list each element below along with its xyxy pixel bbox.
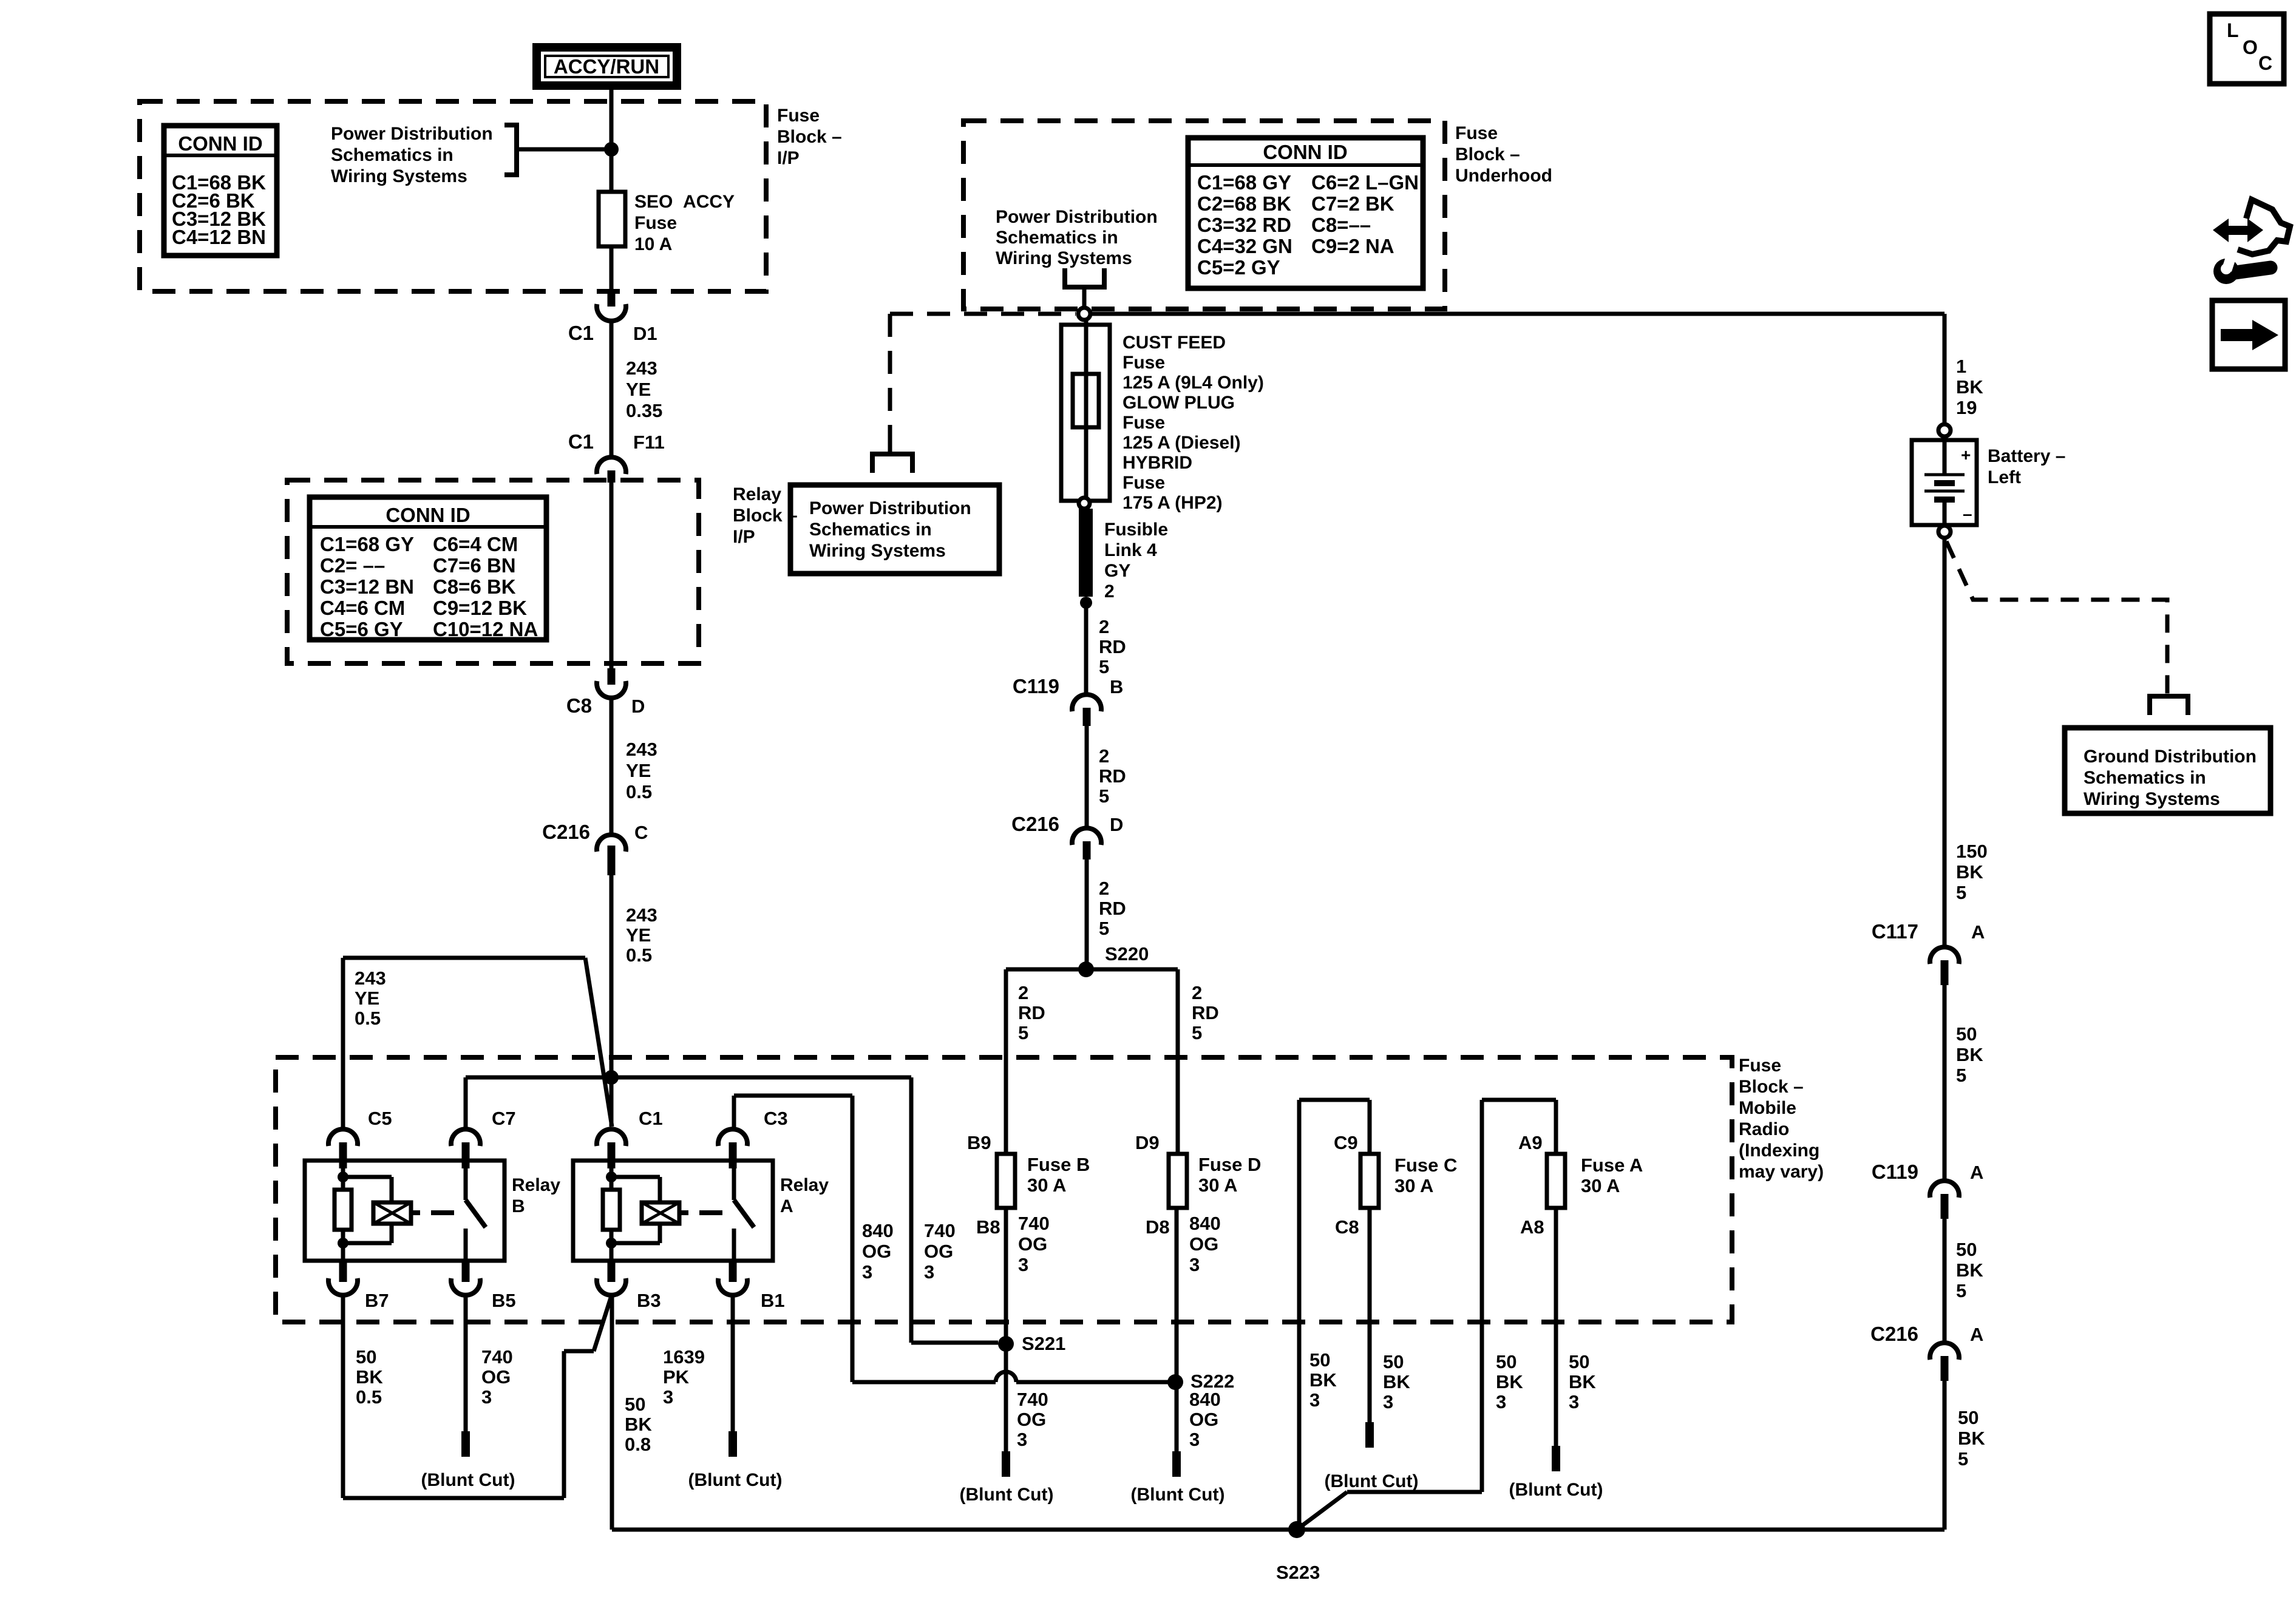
svg-text:2: 2 (1099, 616, 1109, 637)
svg-text:50: 50 (1309, 1349, 1330, 1371)
svg-text:Fuse: Fuse (1455, 123, 1498, 143)
svg-text:1: 1 (1956, 356, 1966, 377)
svg-text:C1: C1 (639, 1108, 663, 1129)
svg-text:C117: C117 (1872, 920, 1918, 943)
svg-text:C216: C216 (1011, 813, 1059, 835)
svg-text:S220: S220 (1105, 943, 1149, 964)
svg-text:C5=2 GY: C5=2 GY (1197, 256, 1280, 279)
svg-text:175 A (HP2): 175 A (HP2) (1123, 493, 1223, 513)
svg-text:C7: C7 (492, 1108, 516, 1129)
svg-text:C3=32 RD: C3=32 RD (1197, 214, 1291, 236)
svg-text:BK: BK (356, 1366, 383, 1388)
svg-text:A: A (1970, 1162, 1983, 1183)
svg-text:Power Distribution: Power Distribution (331, 124, 493, 144)
svg-text:Power Distribution: Power Distribution (996, 207, 1158, 227)
svg-text:0.5: 0.5 (356, 1386, 382, 1408)
svg-text:YE: YE (355, 988, 379, 1009)
svg-text:OG: OG (481, 1366, 511, 1388)
svg-text:Schematics in: Schematics in (809, 520, 932, 540)
svg-text:PK: PK (663, 1366, 690, 1388)
svg-text:840: 840 (1189, 1213, 1221, 1234)
svg-text:C: C (634, 822, 648, 843)
svg-text:A: A (1971, 921, 1985, 943)
svg-text:0.5: 0.5 (355, 1008, 381, 1029)
svg-text:3: 3 (1017, 1429, 1027, 1450)
svg-text:C7=6 BN: C7=6 BN (433, 554, 516, 577)
svg-text:Fuse: Fuse (777, 106, 820, 126)
svg-text:(Blunt Cut): (Blunt Cut) (1325, 1471, 1419, 1491)
svg-text:5: 5 (1958, 1448, 1968, 1470)
svg-text:RD: RD (1018, 1002, 1045, 1023)
svg-text:B1: B1 (761, 1290, 785, 1311)
svg-text:B: B (512, 1196, 525, 1216)
svg-text:2: 2 (1192, 982, 1202, 1003)
svg-text:30 A: 30 A (1027, 1175, 1066, 1196)
svg-text:C10=12 NA: C10=12 NA (433, 618, 538, 640)
svg-text:Schematics in: Schematics in (331, 145, 453, 165)
svg-text:BK: BK (1956, 376, 1983, 398)
svg-text:B5: B5 (492, 1290, 516, 1311)
svg-text:B8: B8 (976, 1216, 1000, 1238)
svg-text:Fuse A: Fuse A (1581, 1154, 1643, 1176)
svg-text:19: 19 (1956, 397, 1977, 418)
svg-text:+: + (1961, 446, 1971, 464)
svg-text:243: 243 (355, 968, 386, 989)
svg-text:Link 4: Link 4 (1104, 540, 1157, 560)
svg-text:CONN ID: CONN ID (178, 132, 262, 155)
svg-text:CONN ID: CONN ID (385, 504, 470, 526)
svg-text:B: B (1110, 676, 1123, 697)
svg-text:50: 50 (1383, 1351, 1404, 1372)
svg-text:125 A (9L4 Only): 125 A (9L4 Only) (1123, 373, 1264, 393)
svg-text:840: 840 (862, 1220, 894, 1241)
svg-text:Fuse: Fuse (1739, 1056, 1781, 1076)
svg-text:GLOW PLUG: GLOW PLUG (1123, 393, 1235, 413)
svg-text:S221: S221 (1022, 1333, 1065, 1354)
svg-text:B7: B7 (365, 1290, 389, 1311)
svg-text:5: 5 (1018, 1022, 1028, 1043)
svg-text:0.35: 0.35 (626, 400, 662, 421)
svg-text:C2= ––: C2= –– (320, 554, 385, 577)
svg-text:Fusible: Fusible (1104, 520, 1168, 540)
svg-text:0.8: 0.8 (625, 1434, 651, 1455)
svg-text:HYBRID: HYBRID (1123, 453, 1192, 473)
svg-text:2: 2 (1104, 581, 1115, 602)
svg-text:2: 2 (1099, 745, 1109, 767)
svg-text:GY: GY (1104, 561, 1130, 581)
svg-text:A: A (1970, 1324, 1983, 1345)
svg-text:C3: C3 (764, 1108, 788, 1129)
svg-text:243: 243 (626, 739, 657, 760)
svg-text:Schematics in: Schematics in (2084, 768, 2206, 788)
svg-text:BK: BK (1958, 1428, 1985, 1449)
svg-text:Fuse: Fuse (634, 213, 677, 233)
svg-text:C4=6 CM: C4=6 CM (320, 597, 405, 619)
svg-text:Block –: Block – (1739, 1077, 1804, 1097)
svg-text:BK: BK (1309, 1369, 1337, 1391)
svg-text:Relay: Relay (780, 1175, 829, 1195)
svg-text:Fuse: Fuse (1123, 413, 1165, 433)
svg-text:C1=68 GY: C1=68 GY (1197, 171, 1291, 194)
svg-text:5: 5 (1956, 1280, 1966, 1301)
svg-text:(Blunt Cut): (Blunt Cut) (688, 1470, 783, 1490)
svg-text:10 A: 10 A (634, 234, 672, 254)
svg-text:Wiring Systems: Wiring Systems (2084, 789, 2220, 809)
svg-text:5: 5 (1099, 918, 1109, 939)
svg-text:3: 3 (663, 1386, 673, 1408)
svg-text:C4=12 BN: C4=12 BN (172, 226, 266, 248)
svg-text:RD: RD (1192, 1002, 1219, 1023)
svg-text:125 A (Diesel): 125 A (Diesel) (1123, 433, 1241, 453)
svg-text:Relay: Relay (512, 1175, 560, 1195)
svg-text:Ground Distribution: Ground Distribution (2084, 747, 2257, 767)
svg-text:BK: BK (1569, 1371, 1596, 1392)
svg-text:CUST FEED: CUST FEED (1123, 333, 1226, 353)
svg-text:Fuse B: Fuse B (1027, 1154, 1090, 1175)
svg-text:3: 3 (481, 1386, 492, 1408)
svg-text:C216: C216 (542, 821, 590, 843)
svg-text:C8: C8 (1335, 1216, 1359, 1238)
svg-text:30 A: 30 A (1581, 1175, 1620, 1196)
svg-text:–: – (1963, 504, 1972, 523)
svg-text:C1: C1 (568, 322, 594, 344)
svg-text:Block –: Block – (1455, 144, 1520, 164)
svg-text:50: 50 (1958, 1407, 1978, 1428)
svg-text:(Blunt Cut): (Blunt Cut) (421, 1470, 515, 1490)
svg-text:2: 2 (1099, 878, 1109, 899)
svg-text:A8: A8 (1520, 1216, 1544, 1238)
svg-text:C6=2 L–GN: C6=2 L–GN (1311, 171, 1419, 194)
svg-text:YE: YE (626, 379, 651, 400)
svg-text:SEO ACCY: SEO ACCY (634, 192, 735, 212)
svg-text:OG: OG (924, 1241, 953, 1262)
svg-text:RD: RD (1099, 765, 1126, 787)
svg-text:may vary): may vary) (1739, 1162, 1824, 1182)
svg-text:C5=6 GY: C5=6 GY (320, 618, 403, 640)
svg-text:740: 740 (1017, 1389, 1048, 1410)
svg-text:CONN ID: CONN ID (1263, 141, 1347, 163)
svg-text:C1: C1 (568, 430, 594, 453)
svg-text:BK: BK (1956, 1044, 1983, 1065)
svg-text:Mobile: Mobile (1739, 1098, 1796, 1118)
svg-text:3: 3 (1309, 1389, 1320, 1411)
svg-text:D: D (1110, 814, 1123, 835)
svg-text:3: 3 (1383, 1391, 1393, 1412)
svg-text:50: 50 (625, 1394, 645, 1415)
svg-text:D9: D9 (1135, 1132, 1160, 1153)
svg-text:(Blunt Cut): (Blunt Cut) (1131, 1485, 1225, 1505)
svg-text:3: 3 (862, 1261, 872, 1283)
svg-text:I/P: I/P (733, 527, 755, 547)
svg-text:Battery –: Battery – (1988, 446, 2065, 466)
svg-text:C: C (2258, 52, 2272, 74)
svg-text:50: 50 (356, 1346, 376, 1368)
svg-text:A9: A9 (1518, 1132, 1543, 1153)
svg-text:740: 740 (481, 1346, 513, 1368)
svg-text:C216: C216 (1870, 1323, 1918, 1345)
svg-text:Wiring Systems: Wiring Systems (809, 541, 946, 561)
svg-text:0.5: 0.5 (626, 944, 652, 966)
svg-text:Block –: Block – (777, 127, 842, 147)
svg-text:740: 740 (1018, 1213, 1050, 1234)
svg-text:YE: YE (626, 760, 651, 781)
svg-text:B3: B3 (637, 1290, 661, 1311)
svg-text:(Blunt Cut): (Blunt Cut) (960, 1485, 1054, 1505)
svg-text:I/P: I/P (777, 148, 800, 168)
svg-text:Fuse: Fuse (1123, 353, 1165, 373)
svg-text:(Indexing: (Indexing (1739, 1141, 1819, 1161)
svg-text:Power Distribution: Power Distribution (809, 498, 971, 518)
svg-text:(Blunt Cut): (Blunt Cut) (1509, 1480, 1603, 1500)
svg-text:OG: OG (1189, 1409, 1218, 1430)
svg-text:243: 243 (626, 358, 657, 379)
svg-text:C8: C8 (566, 694, 592, 717)
svg-text:OG: OG (1189, 1233, 1218, 1255)
svg-text:Underhood: Underhood (1455, 166, 1552, 186)
svg-text:150: 150 (1956, 841, 1988, 862)
svg-text:5: 5 (1099, 785, 1109, 807)
svg-text:C6=4 CM: C6=4 CM (433, 533, 518, 555)
svg-text:3: 3 (1189, 1254, 1200, 1275)
svg-text:30 A: 30 A (1394, 1175, 1433, 1196)
svg-text:Relay: Relay (733, 484, 781, 504)
svg-text:OG: OG (1018, 1233, 1047, 1255)
svg-text:Schematics in: Schematics in (996, 228, 1118, 248)
svg-text:C2=68 BK: C2=68 BK (1197, 192, 1291, 215)
svg-text:A: A (780, 1196, 793, 1216)
svg-text:0.5: 0.5 (626, 781, 652, 802)
svg-text:ACCY/RUN: ACCY/RUN (554, 55, 659, 78)
svg-text:Radio: Radio (1739, 1119, 1789, 1139)
svg-text:50: 50 (1956, 1239, 1977, 1260)
svg-text:30 A: 30 A (1198, 1175, 1237, 1196)
svg-text:C3=12 BN: C3=12 BN (320, 575, 414, 598)
svg-text:C119: C119 (1013, 675, 1059, 697)
svg-text:BK: BK (1383, 1371, 1410, 1392)
svg-text:C4=32 GN: C4=32 GN (1197, 235, 1292, 257)
svg-text:3: 3 (1569, 1391, 1579, 1412)
svg-text:740: 740 (924, 1220, 956, 1241)
svg-text:BK: BK (625, 1414, 652, 1435)
svg-text:D8: D8 (1146, 1216, 1170, 1238)
svg-text:C119: C119 (1872, 1161, 1918, 1183)
svg-text:5: 5 (1956, 882, 1966, 903)
svg-text:C1=68 GY: C1=68 GY (320, 533, 414, 555)
svg-text:C7=2 BK: C7=2 BK (1311, 192, 1394, 215)
svg-text:RD: RD (1099, 898, 1126, 919)
svg-text:C8=6 BK: C8=6 BK (433, 575, 516, 598)
svg-text:243: 243 (626, 904, 657, 926)
svg-text:3: 3 (1496, 1391, 1506, 1412)
svg-text:S223: S223 (1276, 1562, 1320, 1583)
svg-text:Wiring Systems: Wiring Systems (996, 248, 1132, 268)
svg-text:D1: D1 (633, 323, 657, 344)
svg-text:5: 5 (1099, 656, 1109, 677)
svg-text:OG: OG (1017, 1409, 1046, 1430)
svg-text:L: L (2227, 19, 2239, 41)
svg-text:50: 50 (1956, 1023, 1977, 1045)
svg-text:Fuse D: Fuse D (1198, 1154, 1261, 1175)
svg-text:O: O (2243, 36, 2258, 58)
svg-text:OG: OG (862, 1241, 891, 1262)
svg-text:840: 840 (1189, 1389, 1221, 1410)
svg-text:BK: BK (1496, 1371, 1523, 1392)
svg-text:2: 2 (1018, 982, 1028, 1003)
svg-text:BK: BK (1956, 861, 1983, 883)
svg-text:C9=2 NA: C9=2 NA (1311, 235, 1394, 257)
svg-text:50: 50 (1496, 1351, 1517, 1372)
svg-text:B9: B9 (967, 1132, 991, 1153)
svg-text:C5: C5 (368, 1108, 392, 1129)
svg-text:Left: Left (1988, 467, 2021, 487)
svg-text:50: 50 (1569, 1351, 1589, 1372)
svg-text:5: 5 (1192, 1022, 1202, 1043)
svg-text:3: 3 (1018, 1254, 1028, 1275)
svg-text:C9: C9 (1334, 1132, 1358, 1153)
svg-text:YE: YE (626, 924, 651, 946)
svg-text:F11: F11 (633, 432, 665, 453)
svg-text:5: 5 (1956, 1065, 1966, 1086)
svg-text:Fuse: Fuse (1123, 473, 1165, 493)
svg-text:3: 3 (1189, 1429, 1200, 1450)
svg-text:3: 3 (924, 1261, 934, 1283)
svg-text:1639: 1639 (663, 1346, 705, 1368)
svg-text:C9=12 BK: C9=12 BK (433, 597, 527, 619)
svg-text:RD: RD (1099, 636, 1126, 657)
svg-text:Fuse C: Fuse C (1394, 1154, 1457, 1176)
svg-text:Wiring Systems: Wiring Systems (331, 166, 467, 186)
svg-text:BK: BK (1956, 1259, 1983, 1281)
svg-text:C8=––: C8=–– (1311, 214, 1371, 236)
svg-text:D: D (631, 696, 645, 717)
